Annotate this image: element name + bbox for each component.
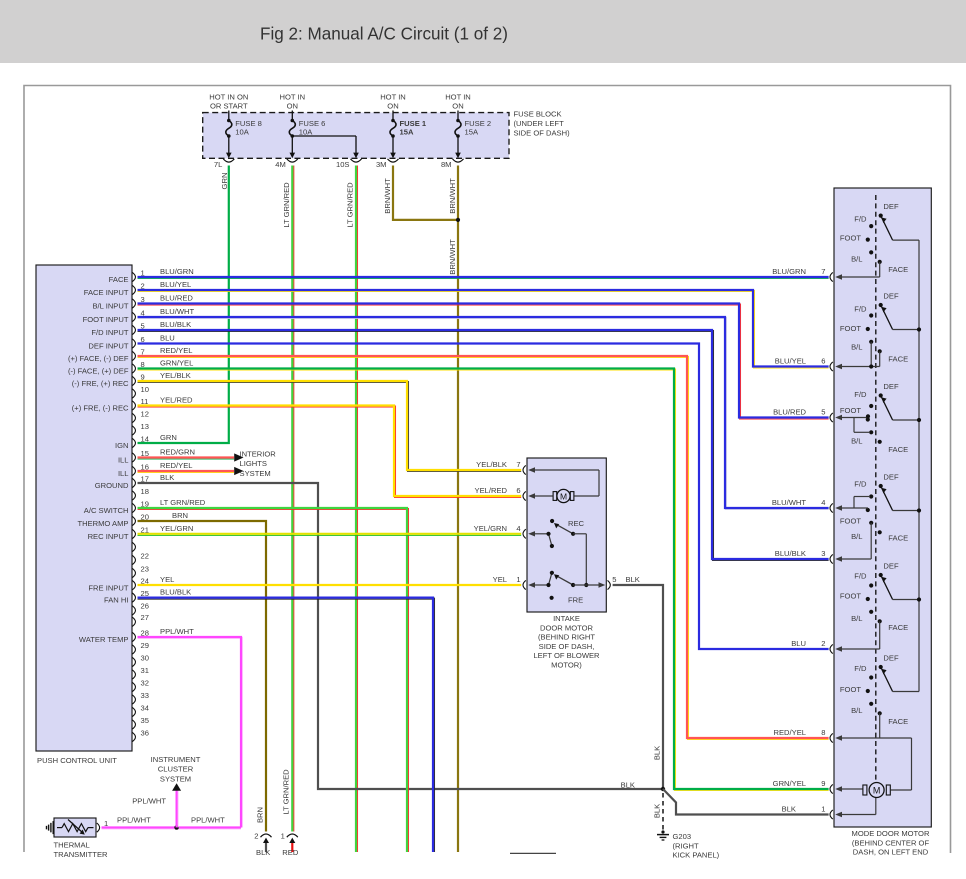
svg-text:SYSTEM: SYSTEM <box>240 469 271 478</box>
svg-text:BLU/RED: BLU/RED <box>773 408 806 417</box>
svg-text:FOOT: FOOT <box>840 234 861 243</box>
svg-text:SIDE OF DASH,: SIDE OF DASH, <box>539 642 595 651</box>
svg-text:32: 32 <box>141 678 149 687</box>
svg-text:9: 9 <box>821 779 825 788</box>
svg-text:4: 4 <box>516 524 520 533</box>
svg-text:DOOR MOTOR: DOOR MOTOR <box>540 623 594 632</box>
svg-text:FUSE BLOCK: FUSE BLOCK <box>514 109 562 118</box>
svg-text:PPL/WHT: PPL/WHT <box>117 816 151 825</box>
svg-text:5: 5 <box>612 575 616 584</box>
svg-text:DEF: DEF <box>883 382 899 391</box>
svg-text:LT GRN/RED: LT GRN/RED <box>346 182 355 228</box>
svg-text:ILL: ILL <box>118 456 129 465</box>
svg-text:RED/YEL: RED/YEL <box>774 728 807 737</box>
svg-text:36: 36 <box>141 728 149 737</box>
svg-text:ON: ON <box>387 102 398 111</box>
svg-text:BLU/YEL: BLU/YEL <box>775 357 806 366</box>
svg-text:FOOT: FOOT <box>840 591 861 600</box>
svg-text:RED/YEL: RED/YEL <box>160 461 193 470</box>
svg-text:DEF: DEF <box>883 202 899 211</box>
svg-text:1: 1 <box>821 805 825 814</box>
svg-text:ILL: ILL <box>118 469 129 478</box>
svg-text:DEF: DEF <box>883 473 899 482</box>
svg-text:26: 26 <box>141 602 149 611</box>
svg-text:29: 29 <box>141 641 149 650</box>
svg-text:BLU/WHT: BLU/WHT <box>772 498 807 507</box>
svg-text:FOOT INPUT: FOOT INPUT <box>83 315 129 324</box>
svg-text:B/L: B/L <box>851 706 862 715</box>
svg-text:BRN: BRN <box>255 807 264 823</box>
svg-text:IGN: IGN <box>115 441 129 450</box>
svg-text:FOOT: FOOT <box>840 324 861 333</box>
svg-text:BLU/YEL: BLU/YEL <box>160 280 191 289</box>
svg-text:B/L: B/L <box>851 343 862 352</box>
svg-text:FACE INPUT: FACE INPUT <box>84 288 129 297</box>
svg-text:HOT IN: HOT IN <box>445 93 471 102</box>
svg-text:(-) FRE, (+) REC: (-) FRE, (+) REC <box>72 379 129 388</box>
svg-text:FOOT: FOOT <box>840 406 861 415</box>
svg-text:REC: REC <box>568 519 585 528</box>
svg-text:(BEHIND RIGHT: (BEHIND RIGHT <box>538 633 595 642</box>
svg-text:BRN/WHT: BRN/WHT <box>383 178 392 214</box>
svg-text:(BEHIND CENTER OF: (BEHIND CENTER OF <box>852 838 930 847</box>
svg-text:FRE: FRE <box>568 596 583 605</box>
svg-text:M: M <box>873 785 881 795</box>
svg-text:BRN: BRN <box>172 511 188 520</box>
svg-text:10A: 10A <box>235 127 249 136</box>
svg-text:2: 2 <box>254 832 258 841</box>
svg-text:B/L: B/L <box>851 437 862 446</box>
svg-text:HOT IN: HOT IN <box>380 93 406 102</box>
svg-text:23: 23 <box>141 564 149 573</box>
svg-text:F/D: F/D <box>854 664 867 673</box>
svg-text:LIGHTS: LIGHTS <box>240 459 267 468</box>
svg-text:YEL/GRN: YEL/GRN <box>160 524 193 533</box>
svg-text:FACE: FACE <box>888 534 908 543</box>
svg-text:BLU/BLK: BLU/BLK <box>775 549 806 558</box>
svg-text:RED: RED <box>282 848 299 857</box>
svg-text:15A: 15A <box>465 127 479 136</box>
svg-text:7L: 7L <box>214 160 222 169</box>
svg-text:15A: 15A <box>400 127 414 136</box>
svg-text:FACE: FACE <box>888 717 908 726</box>
svg-text:5: 5 <box>821 408 825 417</box>
svg-text:FACE: FACE <box>888 265 908 274</box>
svg-text:BLK: BLK <box>782 805 796 814</box>
svg-text:RED/GRN: RED/GRN <box>160 447 195 456</box>
svg-text:22: 22 <box>141 551 149 560</box>
svg-text:B/L: B/L <box>851 255 862 264</box>
svg-text:OR START: OR START <box>210 102 248 111</box>
svg-text:F/D: F/D <box>854 480 867 489</box>
svg-text:PPL/WHT: PPL/WHT <box>132 796 166 805</box>
svg-text:LT GRN/RED: LT GRN/RED <box>282 182 291 228</box>
svg-text:2: 2 <box>821 639 825 648</box>
svg-text:FACE: FACE <box>109 275 129 284</box>
svg-text:BLK: BLK <box>160 473 174 482</box>
svg-text:G203: G203 <box>673 832 692 841</box>
svg-text:YEL/RED: YEL/RED <box>475 486 508 495</box>
svg-text:BRN/WHT: BRN/WHT <box>448 178 457 214</box>
svg-text:BRN/WHT: BRN/WHT <box>448 239 457 275</box>
svg-text:B/L: B/L <box>851 614 862 623</box>
svg-text:BLU/BLK: BLU/BLK <box>160 588 191 597</box>
svg-text:ON: ON <box>452 102 463 111</box>
svg-text:BLK: BLK <box>653 746 662 760</box>
svg-text:FOOT: FOOT <box>840 685 861 694</box>
svg-text:35: 35 <box>141 716 149 725</box>
svg-text:12: 12 <box>141 409 149 418</box>
svg-text:BLU/GRN: BLU/GRN <box>772 267 806 276</box>
svg-text:6: 6 <box>821 357 825 366</box>
svg-text:BLK: BLK <box>621 780 635 789</box>
svg-text:M: M <box>560 491 567 501</box>
svg-text:DEF: DEF <box>883 654 899 663</box>
svg-text:INTERIOR: INTERIOR <box>240 449 277 458</box>
svg-text:FACE: FACE <box>888 623 908 632</box>
svg-text:3M: 3M <box>376 160 387 169</box>
svg-text:HOT IN ON: HOT IN ON <box>209 93 248 102</box>
svg-text:DEF INPUT: DEF INPUT <box>88 342 128 351</box>
svg-text:A/C SWITCH: A/C SWITCH <box>84 506 129 515</box>
svg-text:GRN: GRN <box>220 173 229 190</box>
svg-text:BLU/RED: BLU/RED <box>160 293 193 302</box>
svg-text:CLUSTER: CLUSTER <box>158 765 194 774</box>
svg-text:BLU: BLU <box>160 333 175 342</box>
svg-text:PPL/WHT: PPL/WHT <box>160 627 194 636</box>
svg-text:8: 8 <box>821 728 825 737</box>
svg-text:BLK: BLK <box>256 848 270 857</box>
svg-text:DEF: DEF <box>883 562 899 571</box>
svg-text:F/D: F/D <box>854 215 867 224</box>
svg-text:PUSH CONTROL UNIT: PUSH CONTROL UNIT <box>37 756 117 765</box>
svg-text:KICK PANEL): KICK PANEL) <box>673 851 720 860</box>
svg-text:B/L INPUT: B/L INPUT <box>92 302 128 311</box>
svg-text:YEL/BLK: YEL/BLK <box>160 371 191 380</box>
svg-text:27: 27 <box>141 613 149 622</box>
svg-text:3: 3 <box>821 549 825 558</box>
svg-text:PPL/WHT: PPL/WHT <box>191 816 225 825</box>
svg-text:F/D INPUT: F/D INPUT <box>91 328 128 337</box>
svg-text:GRN/YEL: GRN/YEL <box>773 779 806 788</box>
svg-text:31: 31 <box>141 666 149 675</box>
svg-text:33: 33 <box>141 691 149 700</box>
svg-text:RED/YEL: RED/YEL <box>160 346 193 355</box>
svg-text:SYSTEM: SYSTEM <box>160 774 191 783</box>
svg-text:MOTOR): MOTOR) <box>551 661 582 670</box>
svg-text:FOOT: FOOT <box>840 517 861 526</box>
svg-text:14: 14 <box>141 434 149 443</box>
svg-text:(RIGHT: (RIGHT <box>673 841 700 850</box>
svg-text:7: 7 <box>821 267 825 276</box>
svg-text:YEL/RED: YEL/RED <box>160 395 193 404</box>
svg-text:4M: 4M <box>275 160 286 169</box>
svg-text:THERMO AMP: THERMO AMP <box>77 519 128 528</box>
svg-text:BLK: BLK <box>653 804 662 818</box>
svg-text:(-) FACE, (+) DEF: (-) FACE, (+) DEF <box>68 367 129 376</box>
svg-text:LEFT OF BLOWER: LEFT OF BLOWER <box>533 651 600 660</box>
svg-text:TRANSMITTER: TRANSMITTER <box>54 850 109 859</box>
svg-text:10S: 10S <box>336 160 350 169</box>
svg-text:(+) FRE, (-) REC: (+) FRE, (-) REC <box>72 404 129 413</box>
svg-text:FRE INPUT: FRE INPUT <box>88 583 128 592</box>
svg-text:Fig 2: Manual A/C Circuit (1 o: Fig 2: Manual A/C Circuit (1 of 2) <box>260 24 508 43</box>
svg-text:INSTRUMENT: INSTRUMENT <box>151 755 201 764</box>
svg-text:LT GRN/RED: LT GRN/RED <box>281 769 290 815</box>
svg-text:INTAKE: INTAKE <box>553 614 580 623</box>
svg-text:F/D: F/D <box>854 305 867 314</box>
svg-text:THERMAL: THERMAL <box>54 840 90 849</box>
svg-text:30: 30 <box>141 653 149 662</box>
svg-text:GRN/YEL: GRN/YEL <box>160 358 193 367</box>
svg-text:LT GRN/RED: LT GRN/RED <box>160 498 206 507</box>
svg-text:FACE: FACE <box>888 445 908 454</box>
svg-text:1: 1 <box>281 832 285 841</box>
svg-text:WATER TEMP: WATER TEMP <box>79 635 129 644</box>
svg-text:GROUND: GROUND <box>95 481 129 490</box>
svg-text:F/D: F/D <box>854 390 867 399</box>
svg-text:13: 13 <box>141 422 149 431</box>
svg-text:8M: 8M <box>441 160 452 169</box>
svg-text:F/D: F/D <box>854 572 867 581</box>
svg-text:4: 4 <box>821 498 825 507</box>
svg-text:FAN HI: FAN HI <box>104 596 128 605</box>
svg-text:10A: 10A <box>299 127 313 136</box>
svg-text:FACE: FACE <box>888 355 908 364</box>
svg-text:BLK: BLK <box>626 575 640 584</box>
svg-text:YEL: YEL <box>160 575 174 584</box>
svg-text:DASH, ON LEFT END: DASH, ON LEFT END <box>853 848 929 857</box>
svg-text:BLU/BLK: BLU/BLK <box>160 320 191 329</box>
svg-text:BLU: BLU <box>791 639 806 648</box>
svg-text:YEL/GRN: YEL/GRN <box>474 524 507 533</box>
svg-text:6: 6 <box>516 486 520 495</box>
svg-text:GRN: GRN <box>160 433 177 442</box>
svg-text:B/L: B/L <box>851 532 862 541</box>
svg-text:YEL: YEL <box>493 575 507 584</box>
svg-text:MODE DOOR MOTOR: MODE DOOR MOTOR <box>852 829 930 838</box>
svg-text:(+) FACE, (-) DEF: (+) FACE, (-) DEF <box>68 354 129 363</box>
svg-text:18: 18 <box>141 487 149 496</box>
svg-text:DEF: DEF <box>883 292 899 301</box>
svg-text:SIDE OF DASH): SIDE OF DASH) <box>514 128 571 137</box>
svg-text:YEL/BLK: YEL/BLK <box>476 460 507 469</box>
svg-text:(UNDER LEFT: (UNDER LEFT <box>514 119 565 128</box>
svg-text:BLU/GRN: BLU/GRN <box>160 267 194 276</box>
svg-text:REC INPUT: REC INPUT <box>88 532 129 541</box>
svg-text:BLU/WHT: BLU/WHT <box>160 307 195 316</box>
svg-text:7: 7 <box>516 460 520 469</box>
svg-text:1: 1 <box>516 575 520 584</box>
svg-text:HOT IN: HOT IN <box>279 93 305 102</box>
svg-text:10: 10 <box>141 385 149 394</box>
svg-text:34: 34 <box>141 703 149 712</box>
svg-text:ON: ON <box>287 102 298 111</box>
